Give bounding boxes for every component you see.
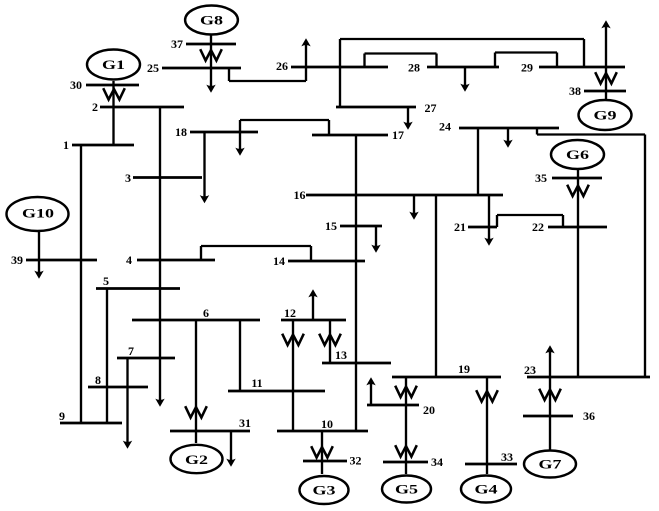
svg-text:12: 12: [284, 306, 296, 320]
svg-text:G10: G10: [22, 206, 54, 221]
svg-text:8: 8: [95, 373, 101, 387]
svg-text:G7: G7: [539, 457, 563, 472]
svg-text:32: 32: [350, 454, 362, 468]
svg-text:14: 14: [273, 254, 285, 268]
svg-text:7: 7: [128, 344, 134, 358]
svg-text:18: 18: [175, 125, 187, 139]
svg-text:11: 11: [251, 376, 262, 390]
svg-text:15: 15: [325, 219, 337, 233]
svg-text:G8: G8: [200, 13, 224, 28]
svg-text:21: 21: [454, 220, 466, 234]
svg-text:20: 20: [423, 403, 435, 417]
svg-text:16: 16: [294, 188, 306, 202]
svg-text:4: 4: [126, 253, 132, 267]
svg-text:G5: G5: [395, 482, 419, 497]
svg-text:31: 31: [239, 416, 251, 430]
svg-text:6: 6: [203, 306, 209, 320]
svg-text:2: 2: [92, 100, 98, 114]
svg-text:9: 9: [59, 409, 65, 423]
svg-text:38: 38: [569, 84, 581, 98]
svg-text:G3: G3: [313, 483, 337, 498]
svg-text:39: 39: [11, 253, 23, 267]
svg-text:26: 26: [276, 59, 288, 73]
svg-text:30: 30: [70, 78, 82, 92]
svg-text:G4: G4: [475, 482, 499, 497]
svg-text:29: 29: [521, 61, 533, 75]
svg-text:3: 3: [125, 171, 131, 185]
svg-text:22: 22: [532, 220, 544, 234]
svg-text:27: 27: [425, 101, 437, 115]
svg-text:19: 19: [458, 362, 470, 376]
svg-text:24: 24: [439, 120, 451, 134]
svg-text:34: 34: [431, 455, 443, 469]
svg-text:13: 13: [335, 348, 347, 362]
svg-text:37: 37: [171, 37, 183, 51]
svg-text:1: 1: [63, 138, 69, 152]
svg-text:28: 28: [408, 61, 420, 75]
svg-text:10: 10: [321, 417, 333, 431]
svg-text:25: 25: [147, 61, 159, 75]
svg-text:23: 23: [524, 363, 536, 377]
svg-text:G2: G2: [185, 452, 208, 467]
svg-text:5: 5: [103, 274, 109, 288]
svg-text:G6: G6: [566, 147, 590, 162]
svg-text:36: 36: [583, 409, 595, 423]
svg-text:33: 33: [501, 450, 513, 464]
svg-text:G1: G1: [102, 57, 125, 72]
svg-text:G9: G9: [594, 108, 618, 123]
svg-text:17: 17: [392, 128, 404, 142]
svg-text:35: 35: [535, 171, 547, 185]
